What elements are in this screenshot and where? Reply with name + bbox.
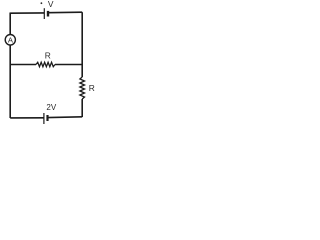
wire top-left segment — [10, 12, 44, 14]
svg-text:A: A — [8, 36, 14, 45]
battery V2 long plate (left) — [43, 113, 45, 124]
wire middle-left segment — [10, 64, 36, 66]
wire left lower (ammeter to bottom corner) — [9, 45, 11, 118]
resistor R1 zigzag (horizontal) — [36, 62, 55, 66]
wire right stub (middle junction to resistor R2) — [81, 65, 83, 78]
wire middle-right segment — [55, 64, 82, 66]
battery V1 short plate (right) — [47, 11, 49, 17]
wire right lower (resistor R2 to bottom corner) — [81, 99, 83, 117]
wire top-right segment — [48, 11, 82, 14]
node polarity dot (top battery) — [41, 2, 43, 4]
wire bottom-left segment — [10, 117, 44, 119]
ammeter A1 circle — [5, 35, 15, 46]
wire right upper (top corner to middle junction) — [81, 12, 83, 64]
resistor R2 zigzag (vertical) — [80, 77, 85, 99]
battery V2 short plate (right) — [46, 115, 48, 121]
wire left upper (top corner to ammeter) — [9, 13, 11, 35]
svg-text:2V: 2V — [46, 103, 56, 112]
svg-text:R: R — [45, 51, 51, 61]
wire bottom-right segment — [48, 116, 83, 119]
battery V1 long plate (left) — [43, 8, 45, 19]
svg-text:V: V — [48, 0, 54, 9]
svg-text:R: R — [89, 83, 95, 93]
